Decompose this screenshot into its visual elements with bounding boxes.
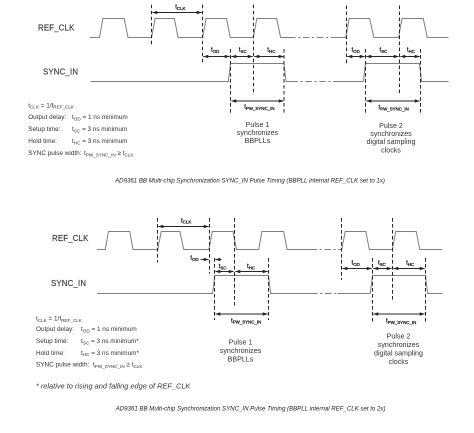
dashed ref line D6 (SYNC_IN rise p2) — [365, 49, 367, 114]
svg-text:tCLK: tCLK — [181, 217, 191, 224]
dimension arrow tPW_SYNC_IN (top p2) — [366, 100, 419, 102]
svg-text:Hold time:: Hold time: — [28, 138, 57, 145]
dashed ref line E9 (SYNC_IN fall p2 bottom) — [425, 258, 427, 324]
svg-text:tSC = 3 ns minimum*: tSC = 3 ns minimum* — [81, 338, 139, 345]
svg-text:tPW_SYNC_IN: tPW_SYNC_IN — [244, 104, 274, 111]
dimension arrow tSC (top p1) — [231, 56, 252, 58]
svg-text:tHC: tHC — [407, 47, 415, 54]
dashed ref line E4 (REF_CLK fall p3 bottom) — [234, 218, 236, 307]
REF_CLK waveform (bottom, solid part 2) — [339, 232, 443, 250]
svg-text:SYNC_IN: SYNC_IN — [43, 68, 78, 77]
svg-text:BBPLLs: BBPLLs — [228, 355, 254, 363]
svg-text:tHC = 3 ns minimum: tHC = 3 ns minimum — [72, 138, 127, 145]
dimension arrow tOD right part (bottom p1) — [215, 259, 221, 261]
dimension arrow tOD (top p2) — [347, 56, 364, 58]
dimension arrow tOD (bottom p2) — [342, 268, 371, 270]
svg-text:synchronizes: synchronizes — [378, 341, 420, 349]
svg-text:REF_CLK: REF_CLK — [38, 24, 75, 33]
dimension arrow tPW_SYNC_IN (bottom p1) — [215, 313, 267, 315]
svg-text:Setup time:: Setup time: — [28, 126, 61, 133]
svg-text:Pulse 1: Pulse 1 — [229, 339, 253, 347]
svg-text:tPW_SYNC_IN ≥ tCLK: tPW_SYNC_IN ≥ tCLK — [93, 362, 143, 369]
svg-text:tHC = 3 ns minimum*: tHC = 3 ns minimum* — [81, 350, 139, 357]
svg-text:tPW_SYNC_IN: tPW_SYNC_IN — [386, 318, 416, 325]
dashed ref line E1 (REF_CLK rise p2 bottom) — [157, 218, 159, 263]
dimension arrow tOD left part (bottom p1) — [201, 259, 209, 261]
svg-text:synchronizes: synchronizes — [237, 129, 279, 137]
svg-text:tSC: tSC — [380, 47, 388, 54]
svg-text:tOD: tOD — [190, 255, 198, 262]
svg-text:digital sampling: digital sampling — [374, 349, 423, 357]
dashed ref line E2 (REF_CLK rise p3 bottom) — [209, 218, 211, 274]
dimension arrow tHC (top p2) — [400, 56, 419, 58]
svg-text:tHC: tHC — [267, 47, 275, 54]
dimension arrow tHC (bottom p1) — [235, 271, 267, 273]
svg-text:Pulse 2: Pulse 2 — [379, 122, 403, 130]
dimension arrow tHC (bottom p2) — [393, 268, 424, 270]
svg-text:synchronizes: synchronizes — [220, 347, 262, 355]
REF_CLK waveform (top, solid part 2) — [335, 19, 449, 38]
svg-text:SYNC pulse width:: SYNC pulse width: — [28, 150, 82, 157]
svg-text:Output delay:: Output delay: — [36, 326, 74, 333]
svg-text:tPW_SYNC_IN: tPW_SYNC_IN — [379, 104, 409, 111]
svg-text:tSC = 3 ns minimum: tSC = 3 ns minimum — [72, 126, 127, 133]
REF_CLK waveform (bottom, solid part 1) — [97, 232, 310, 250]
dashed ref line D3b (SYNC_IN fall p1) — [283, 49, 285, 114]
svg-text:BBPLLs: BBPLLs — [245, 137, 271, 145]
dimension arrow tOD (top p1) — [203, 56, 229, 58]
dashed ref line D1 (REF_CLK rise p2) — [151, 5, 153, 45]
dashed ref line D5 (REF_CLK rise p5) — [346, 6, 348, 65]
svg-text:Setup time:: Setup time: — [36, 338, 69, 345]
svg-text:tHC: tHC — [406, 259, 414, 266]
svg-text:SYNC pulse width:: SYNC pulse width: — [36, 362, 90, 369]
svg-text:synchronizes: synchronizes — [370, 130, 412, 138]
svg-text:SYNC_IN: SYNC_IN — [51, 279, 86, 288]
dimension arrow tCLK (bottom) — [158, 226, 208, 228]
svg-text:tCLK: tCLK — [175, 3, 185, 10]
svg-text:Pulse 2: Pulse 2 — [387, 333, 411, 341]
svg-text:tOD: tOD — [352, 47, 360, 54]
svg-text:* relative to rising and falli: * relative to rising and falling edge of… — [36, 382, 192, 391]
svg-text:tSC: tSC — [378, 259, 386, 266]
dimension arrow tCLK (top) — [152, 12, 201, 14]
dashed ref line D3 (SYNC_IN rise p1) — [230, 49, 232, 114]
svg-text:clocks: clocks — [381, 146, 401, 154]
svg-text:Hold time:: Hold time: — [36, 350, 65, 357]
svg-text:tSC: tSC — [239, 47, 247, 54]
svg-text:clocks: clocks — [389, 358, 409, 366]
dimension arrow tHC (top p1) — [254, 56, 283, 58]
dimension arrow tPW_SYNC_IN (top p1) — [231, 100, 283, 102]
svg-text:tPW_SYNC_IN ≥ tCLK: tPW_SYNC_IN ≥ tCLK — [84, 150, 134, 157]
svg-text:tOD = 1 ns minimum: tOD = 1 ns minimum — [72, 114, 128, 121]
svg-text:AD9361 BB Multi-chip Synchroni: AD9361 BB Multi-chip Synchronization SYN… — [114, 178, 385, 185]
dimension arrow tSC (bottom p1) — [215, 271, 233, 273]
svg-text:digital sampling: digital sampling — [367, 138, 416, 146]
dashed ref line E3 (SYNC_IN rise p1 bottom) — [214, 258, 216, 320]
SYNC_IN break (dash-dot) bottom — [311, 293, 338, 295]
dashed ref line E8 (REF_CLK rise p6 bottom) — [392, 218, 394, 301]
svg-text:tHC: tHC — [247, 263, 255, 270]
SYNC_IN waveform (top, solid part 2) — [335, 64, 449, 82]
svg-text:REF_CLK: REF_CLK — [52, 234, 89, 243]
dashed ref line D4 (REF_CLK rise p4) — [253, 5, 255, 95]
dashed ref line D7 (REF_CLK rise p6) — [399, 6, 401, 95]
REF_CLK break (dash-dot) bottom — [311, 249, 339, 251]
svg-text:tOD: tOD — [352, 259, 360, 266]
SYNC_IN waveform (bottom, solid part 2) — [338, 276, 443, 294]
REF_CLK waveform (top, solid part 1) — [90, 19, 289, 38]
REF_CLK break (dash-dot) top — [289, 37, 335, 39]
dashed ref line D2 (REF_CLK rise p3) — [202, 5, 204, 64]
svg-text:Output delay:: Output delay: — [28, 114, 66, 121]
dimension arrow tPW_SYNC_IN (bottom p2) — [373, 313, 424, 315]
svg-text:tOD = 1 ns minimum: tOD = 1 ns minimum — [81, 326, 137, 333]
SYNC_IN waveform (top, solid part 1) — [91, 64, 292, 82]
SYNC_IN waveform (bottom, solid part 1) — [97, 276, 311, 294]
svg-text:tSC: tSC — [219, 263, 227, 270]
dashed ref line E6 (REF_CLK rise p5 bottom) — [341, 218, 343, 280]
svg-text:tCLK = 1/fREF_CLK: tCLK = 1/fREF_CLK — [28, 102, 75, 109]
SYNC_IN break (dash-dot) top — [292, 81, 336, 83]
svg-text:Pulse 1: Pulse 1 — [246, 121, 270, 129]
dimension arrow tSC (top p2) — [366, 56, 398, 58]
dashed ref line E5 (SYNC_IN fall p1 bottom) — [268, 258, 270, 320]
svg-text:tPW_SYNC_IN: tPW_SYNC_IN — [231, 317, 261, 324]
dashed ref line D8 (SYNC_IN fall p2) — [420, 49, 422, 114]
svg-text:AD9361 BB Multi-chip Synchroni: AD9361 BB Multi-chip Synchronization SYN… — [115, 406, 386, 413]
svg-text:tCLK = 1/fREF_CLK: tCLK = 1/fREF_CLK — [36, 316, 83, 323]
dashed ref line E7 (SYNC_IN rise p2 bottom) — [372, 258, 374, 324]
dimension arrow tSC (bottom p2) — [373, 268, 391, 270]
svg-text:tOD: tOD — [211, 47, 219, 54]
